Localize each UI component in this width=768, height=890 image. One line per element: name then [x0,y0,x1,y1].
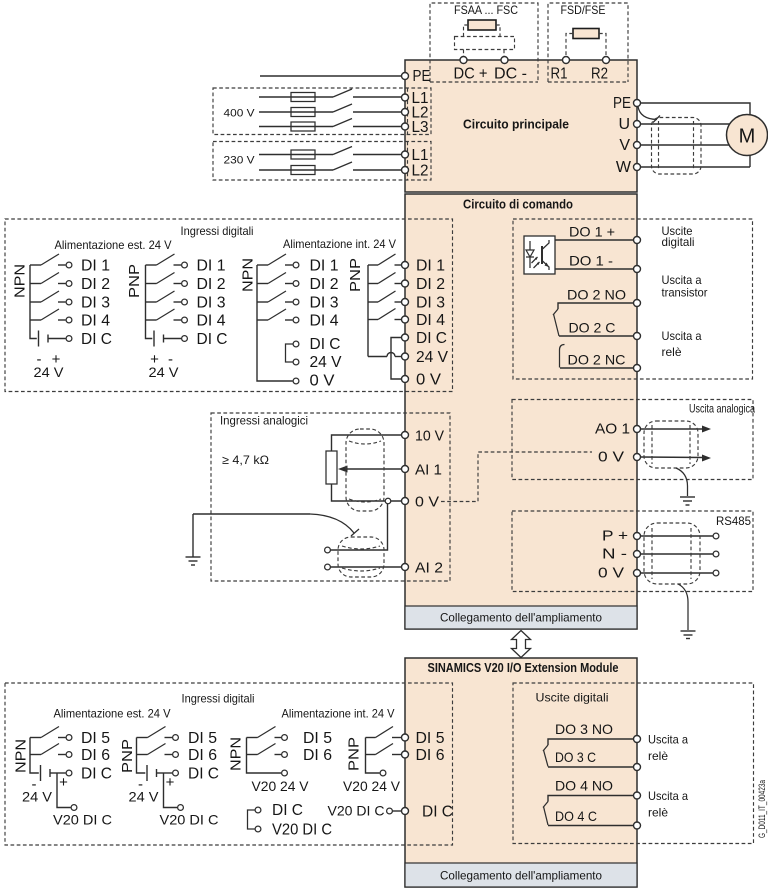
ground symbol RS485 GND3 [681,631,696,639]
terminal DO 1 + [634,237,641,244]
wire DO 4 NO [548,796,633,802]
svg-text:DI 1: DI 1 [310,258,339,275]
terminal DO 2 NC [634,365,641,372]
svg-text:DI C: DI C [197,331,228,348]
svg-text:Uscita a: Uscita a [648,789,688,803]
battery BT2 g2 [154,331,187,347]
svg-text:24 V: 24 V [34,364,65,380]
dashed frame FSD/FSE [548,3,628,82]
svg-text:DI 3: DI 3 [197,295,226,312]
svg-text:Ingressi analogici: Ingressi analogici [220,414,308,428]
terminal DI 3 ctrl [402,299,409,306]
terminal L1 (230V) [402,151,409,158]
terminal V20 24 V gB3 [282,770,288,776]
switch DI 5 gB4 [366,727,402,738]
battery BT3 gB1 [41,765,72,781]
svg-text:V20 DI C: V20 DI C [272,822,332,839]
svg-text:V20 DI C: V20 DI C [160,812,219,828]
switch DI 4 g3 [257,309,299,323]
terminal 0 V AO [634,454,641,461]
terminal DO 2 NO [634,300,641,307]
terminal DC- [501,57,508,64]
svg-text:DO 4 C: DO 4 C [555,808,597,824]
svg-text:24 V: 24 V [22,789,53,805]
phase line L1 230V with fuse and switch [259,147,402,160]
wire 0 V AO arrow [641,455,712,462]
svg-text:DI 1: DI 1 [416,258,445,275]
relay contact K2 NC hook [560,345,565,368]
svg-text:L1: L1 [412,147,429,164]
svg-text:DC -: DC - [494,66,527,83]
svg-text:DO 1 -: DO 1 - [569,253,613,269]
switch DI 4 g4 [368,309,401,320]
relay contact K4 blade [544,807,549,826]
svg-text:PNP: PNP [346,737,363,771]
svg-text:Collegamento dell'ampliamento: Collegamento dell'ampliamento [440,611,602,625]
switch DI 6 gB2 [137,744,179,758]
svg-text:DO 3 NO: DO 3 NO [555,721,613,737]
svg-text:DI 6: DI 6 [81,747,110,764]
wire AI 2 [331,566,402,568]
svg-text:AI 1: AI 1 [415,462,442,479]
terminal DO 2 C [634,333,641,340]
AI2 shield (dashed) [338,537,384,577]
svg-text:L2: L2 [412,163,429,180]
terminal DI 2 ctrl [402,280,409,287]
terminal 0 V ctrl [402,376,409,383]
svg-text:DI 5: DI 5 [81,730,110,747]
svg-text:DI 4: DI 4 [310,313,339,330]
terminal L1 (400V) [402,94,409,101]
AO shield inner lines [651,425,653,464]
dashed box Ingressi digitali (bottom) [5,683,453,845]
wire N - [641,553,714,555]
switch DI 4 g1 [30,309,72,323]
bus group 2 PNP est [146,265,153,339]
relay contact K4 tick [543,802,548,808]
phase line L2 230V with fuse and switch [259,162,402,175]
wire DO 2 C [559,335,633,337]
wire U to motor [641,123,741,125]
terminal U [634,121,641,128]
resistor R-B2 dashed leads [566,34,573,57]
svg-text:relè: relè [648,806,668,820]
terminal 0 V analog [402,498,409,505]
wire V20 DI C drop gB1 [57,773,71,808]
resistor R-B1 dashed leads [464,25,469,37]
jumper DI C to 24 V g3 [286,341,299,365]
svg-text:PNP: PNP [126,264,143,298]
svg-text:DI 1: DI 1 [197,258,226,275]
svg-text:Collegamento dell'ampliamento: Collegamento dell'ampliamento [440,869,602,883]
svg-text:DI C: DI C [81,331,112,348]
terminal 10 V [402,432,409,439]
wire DI C to 0V link g4 [391,338,401,380]
shield tick AI2 [351,529,359,536]
svg-text:Alimentazione int. 24 V: Alimentazione int. 24 V [282,707,395,721]
switch DI 6 gB4 [366,744,402,755]
switch DI 6 gB1 [30,744,72,758]
svg-text:Circuito principale: Circuito principale [463,117,569,132]
svg-text:relè: relè [648,749,668,763]
dashed option box under R-B1 [455,37,515,50]
svg-text:N -: N - [602,546,627,563]
svg-text:DC +: DC + [454,66,488,83]
svg-text:DI 6: DI 6 [303,747,332,764]
svg-text:PNP: PNP [347,258,364,292]
bus group 3 NPN int [257,265,293,381]
svg-text:10 V: 10 V [415,428,444,445]
svg-text:DO 1 +: DO 1 + [569,224,615,240]
terminal PE out [634,100,641,107]
svg-text:Uscita a: Uscita a [648,733,688,747]
svg-text:V20 DI C: V20 DI C [328,803,385,819]
circle V20 DI C gB2 [178,805,184,811]
circle V20 DI C gB1 [71,805,77,811]
RS485 shield ground curve [678,584,688,630]
switch DI 3 g4 [368,291,401,302]
switch DI 1 g2 [146,254,188,268]
svg-text:G_D011_IT_00423a: G_D011_IT_00423a [757,780,767,838]
phase line L1 400V: wire F1 fuse S1 switch [259,89,402,102]
terminal DI 4 ctrl [402,316,409,323]
svg-text:transistor: transistor [662,286,708,300]
end circle 0 V RS [713,570,719,576]
wire DO 3 NO [548,739,633,745]
svg-text:Alimentazione est. 24 V: Alimentazione est. 24 V [55,238,172,252]
svg-text:Alimentazione int. 24 V: Alimentazione int. 24 V [283,237,396,251]
svg-text:Alimentazione est. 24 V: Alimentazione est. 24 V [54,707,171,721]
svg-text:DI 2: DI 2 [310,276,339,293]
terminal DO 4 C [634,822,641,829]
wire DO 2 NO [558,303,633,309]
svg-text:NPN: NPN [240,258,257,292]
svg-text:Circuito di comando: Circuito di comando [463,197,573,212]
bus group 4 PNP int [367,265,369,357]
terminal AO 1 [634,426,641,433]
dashed box 400 V group [213,88,431,135]
switch DI 2 g2 [146,273,188,287]
battery BT1 g1 [39,331,72,347]
main circuit box U-MAIN [405,60,637,192]
wire DO 2 NC [560,367,633,369]
shield inner lines AI [349,441,381,444]
wire DO 1 - [555,268,633,270]
bus group B3 [247,738,282,774]
terminal DO 3 C [634,764,641,771]
control circuit box U-CTRL [405,194,637,629]
relay contact K3 blade [544,750,549,767]
svg-text:0 V: 0 V [598,449,624,466]
dashed frame FSAA...FSC [430,3,538,82]
svg-text:DI 3: DI 3 [416,295,445,312]
relay contact K2 tick [553,309,558,315]
svg-text:DI C: DI C [81,766,112,783]
svg-text:DI C: DI C [422,804,453,821]
dashed box 230 V group [213,142,431,181]
terminal DI 1 ctrl [402,262,409,269]
svg-text:AI 2: AI 2 [415,560,443,577]
wire DO 1 + [555,239,633,241]
terminal R1 [563,57,570,64]
terminal DO 3 NO [634,736,641,743]
terminal 0 V RS [634,570,641,577]
wire AO 1 arrow [641,426,712,433]
terminal V [634,142,641,149]
switch DI 1 g1 [30,254,72,268]
svg-text:FSAA ... FSC: FSAA ... FSC [454,3,518,17]
svg-text:DI 3: DI 3 [310,295,339,312]
wire PE to motor frame [641,103,751,167]
phase line L3 400V with fuse and switch [259,119,402,132]
extension module box U-EXT [405,658,637,887]
wire W [641,166,751,168]
terminal 0 V g3 [293,378,299,384]
svg-text:0 V: 0 V [310,373,335,390]
AI2 source circle b [325,564,331,570]
svg-text:DI 4: DI 4 [81,313,110,330]
svg-text:DI 4: DI 4 [416,312,445,329]
motor M1 [727,115,768,156]
jumper DI C to V20 DI C gB3 [248,807,261,832]
circle V20 DI C gB4 [387,808,393,814]
switch DI 3 g2 [146,291,188,305]
braking resistor R-B1 [468,20,496,30]
bus group B2 [137,738,146,774]
svg-text:DO 2 NO: DO 2 NO [567,287,626,303]
svg-text:DI 4: DI 4 [197,313,226,330]
dash-dot link 0V to AO 0V [441,452,592,502]
svg-text:L3: L3 [412,119,429,136]
AO cable shield (dashed) [644,421,698,468]
switch DI 5 gB3 [247,727,288,741]
bus group B1 [30,738,39,774]
AI2 source circle a [325,547,331,553]
svg-text:DI 5: DI 5 [416,730,445,747]
bus group 1 NPN est [30,265,37,339]
svg-text:DO 2 C: DO 2 C [569,320,616,336]
end circle N - [713,551,719,557]
wire DO 3 C [548,766,633,768]
wire g4 bus to 24V with hop [368,353,401,357]
junction AI2 return on 0V [385,498,391,504]
ground symbol AO GND2 [680,497,695,505]
svg-text:U: U [618,116,630,133]
svg-text:DI 5: DI 5 [188,730,217,747]
switch DI 2 g4 [368,273,401,284]
svg-text:DI 2: DI 2 [197,276,226,293]
motor cable shield (dashed) [652,118,702,175]
svg-text:relè: relè [662,345,682,359]
relay contact K2 blade [554,314,560,336]
ground wire analog [193,513,310,515]
shield tick motor cable [653,116,660,123]
motor cable shield inner lines [658,121,660,170]
svg-text:NPN: NPN [13,739,30,773]
terminal L3 (400V) [402,123,409,130]
svg-text:V: V [619,137,630,154]
wire V to motor [641,144,741,146]
switch DI 6 gB3 [247,744,288,758]
svg-text:0 V: 0 V [598,565,624,582]
end circle P + [713,533,719,539]
terminal DO 1 - [634,266,641,273]
terminal AI 1 [402,466,409,473]
svg-text:24 V: 24 V [149,364,180,380]
svg-text:RS485: RS485 [716,514,751,528]
wire V20 DI C drop gB2 [164,773,178,808]
wire DO 4 C [548,825,633,827]
svg-text:+: + [59,774,68,791]
inner dashed edge L1L2L3 [407,88,409,135]
svg-text:Ingressi digitali: Ingressi digitali [181,224,254,238]
shield inner lines AI2 [342,546,380,549]
terminal DI 6 ext [402,751,409,758]
switch DI 2 g3 [257,273,299,287]
potentiometer R-POT [326,451,337,484]
wire P + [641,535,714,537]
svg-text:DI C: DI C [272,802,303,819]
dashed drops to DC terminals [463,50,465,57]
RS485 shield inner lines [651,528,653,579]
svg-text:230 V: 230 V [224,155,256,167]
terminal AI 2 [402,564,409,571]
expansion link bar (extension) [405,863,637,887]
dashed box Uscite digitali (bottom) [513,683,754,844]
terminal L2 (400V) [402,109,409,116]
svg-text:DI 3: DI 3 [81,295,110,312]
terminal V20 24 V gB4 [380,770,386,776]
svg-text:FSD/FSE: FSD/FSE [561,3,606,17]
switch DI 5 gB1 [30,727,72,741]
wire 0 V RS [641,572,714,574]
PE shield bond curve [638,107,657,120]
terminal N - [634,551,641,558]
wire PE input [260,75,402,77]
svg-text:Uscita analogica: Uscita analogica [689,402,755,416]
svg-text:DI 6: DI 6 [188,747,217,764]
svg-text:0 V: 0 V [415,494,439,511]
svg-text:SINAMICS V20 I/O Extension Mod: SINAMICS V20 I/O Extension Module [428,660,619,675]
switch DI 1 g4 [368,254,401,265]
svg-text:DI 1: DI 1 [81,258,110,275]
terminal DI C ctrl [402,334,409,341]
switch DI 2 g1 [30,273,72,287]
svg-text:Ingressi digitali: Ingressi digitali [182,692,255,706]
bus group B4 [366,738,380,774]
terminal 24 V ctrl [402,353,409,360]
wire V20 DI C gB4 to DI C [393,810,402,812]
expansion double arrow [512,631,531,658]
relay contact K3 tick [543,745,548,751]
RS485 cable shield (dashed) [644,523,700,584]
battery BT4 gB2 [147,765,178,781]
svg-text:DI 2: DI 2 [81,276,110,293]
switch DI 3 g1 [30,291,72,305]
svg-text:24 V: 24 V [310,354,342,371]
svg-text:R1: R1 [551,66,568,83]
analog input shield (dashed) [346,429,384,511]
svg-text:DI C: DI C [416,330,447,347]
dashed box Ingressi analogici [211,413,450,581]
switch DI 5 gB2 [137,727,179,741]
switch DI 4 g2 [146,309,188,323]
wiper arrow AI 1 [338,466,401,473]
svg-text:AO 1: AO 1 [595,421,630,438]
svg-text:400 V: 400 V [224,108,256,120]
wire AI2 return up to 0V [331,504,388,550]
wire pot bottom to 0V [332,484,402,501]
switch DI 1 g3 [257,254,299,268]
svg-text:PNP: PNP [119,739,136,773]
svg-text:+: + [166,774,175,791]
svg-text:PE: PE [413,68,431,85]
svg-text:Uscite digitali: Uscite digitali [536,691,609,705]
switch DI 3 g3 [257,291,299,305]
svg-text:P +: P + [602,528,628,545]
svg-text:NPN: NPN [228,737,245,771]
svg-text:0 V: 0 V [416,372,441,389]
phase line L2 400V with fuse and switch [259,104,402,117]
optocoupler U2 [524,236,555,274]
svg-text:PE: PE [613,95,631,112]
dashed box Uscite digitali (top) [513,219,753,379]
terminal DO 4 NO [634,792,641,799]
wire pot top to 10V [332,435,402,451]
ground symbol analog GND1 [186,514,201,565]
terminal DI 5 ext [402,734,409,741]
svg-text:R2: R2 [591,66,608,83]
svg-text:DI C: DI C [188,766,219,783]
braking resistor R-B2 [573,29,599,39]
svg-text:DO 3 C: DO 3 C [555,749,596,765]
terminal P + [634,533,641,540]
AO shield ground curve [676,468,688,496]
dashed box Ingressi digitali (top) [5,219,453,392]
svg-text:Uscita a: Uscita a [662,329,702,343]
svg-text:≥ 4,7 kΩ: ≥ 4,7 kΩ [222,453,269,467]
svg-text:DO 4 NO: DO 4 NO [555,778,613,794]
svg-text:digitali: digitali [662,235,695,249]
svg-text:DI 6: DI 6 [416,747,445,764]
svg-text:DI 2: DI 2 [416,276,445,293]
svg-text:M: M [739,126,756,148]
terminal DI C ext [402,808,409,815]
terminal R2 [603,57,610,64]
svg-text:DI 5: DI 5 [303,730,332,747]
terminal PE (input) [402,73,409,80]
terminal W [634,164,641,171]
terminal DC+ [460,57,467,64]
svg-text:W: W [616,159,632,176]
svg-text:DO 2 NC: DO 2 NC [568,352,626,368]
inner dashed edge L1L2 [407,142,409,181]
svg-text:V20 24 V: V20 24 V [252,778,310,794]
dashed box RS485 [512,511,753,592]
ground bond curve to AI2 shield [310,514,354,533]
svg-text:V20 DI C: V20 DI C [53,812,112,828]
svg-text:V20 24 V: V20 24 V [343,778,401,794]
svg-text:NPN: NPN [12,264,29,298]
svg-text:DI C: DI C [310,336,341,353]
terminal L2 (230V) [402,167,409,174]
svg-text:24 V: 24 V [416,349,448,366]
svg-text:24 V: 24 V [129,789,160,805]
dashed box Uscita analogica [512,400,753,480]
expansion link bar (control) [405,606,637,629]
